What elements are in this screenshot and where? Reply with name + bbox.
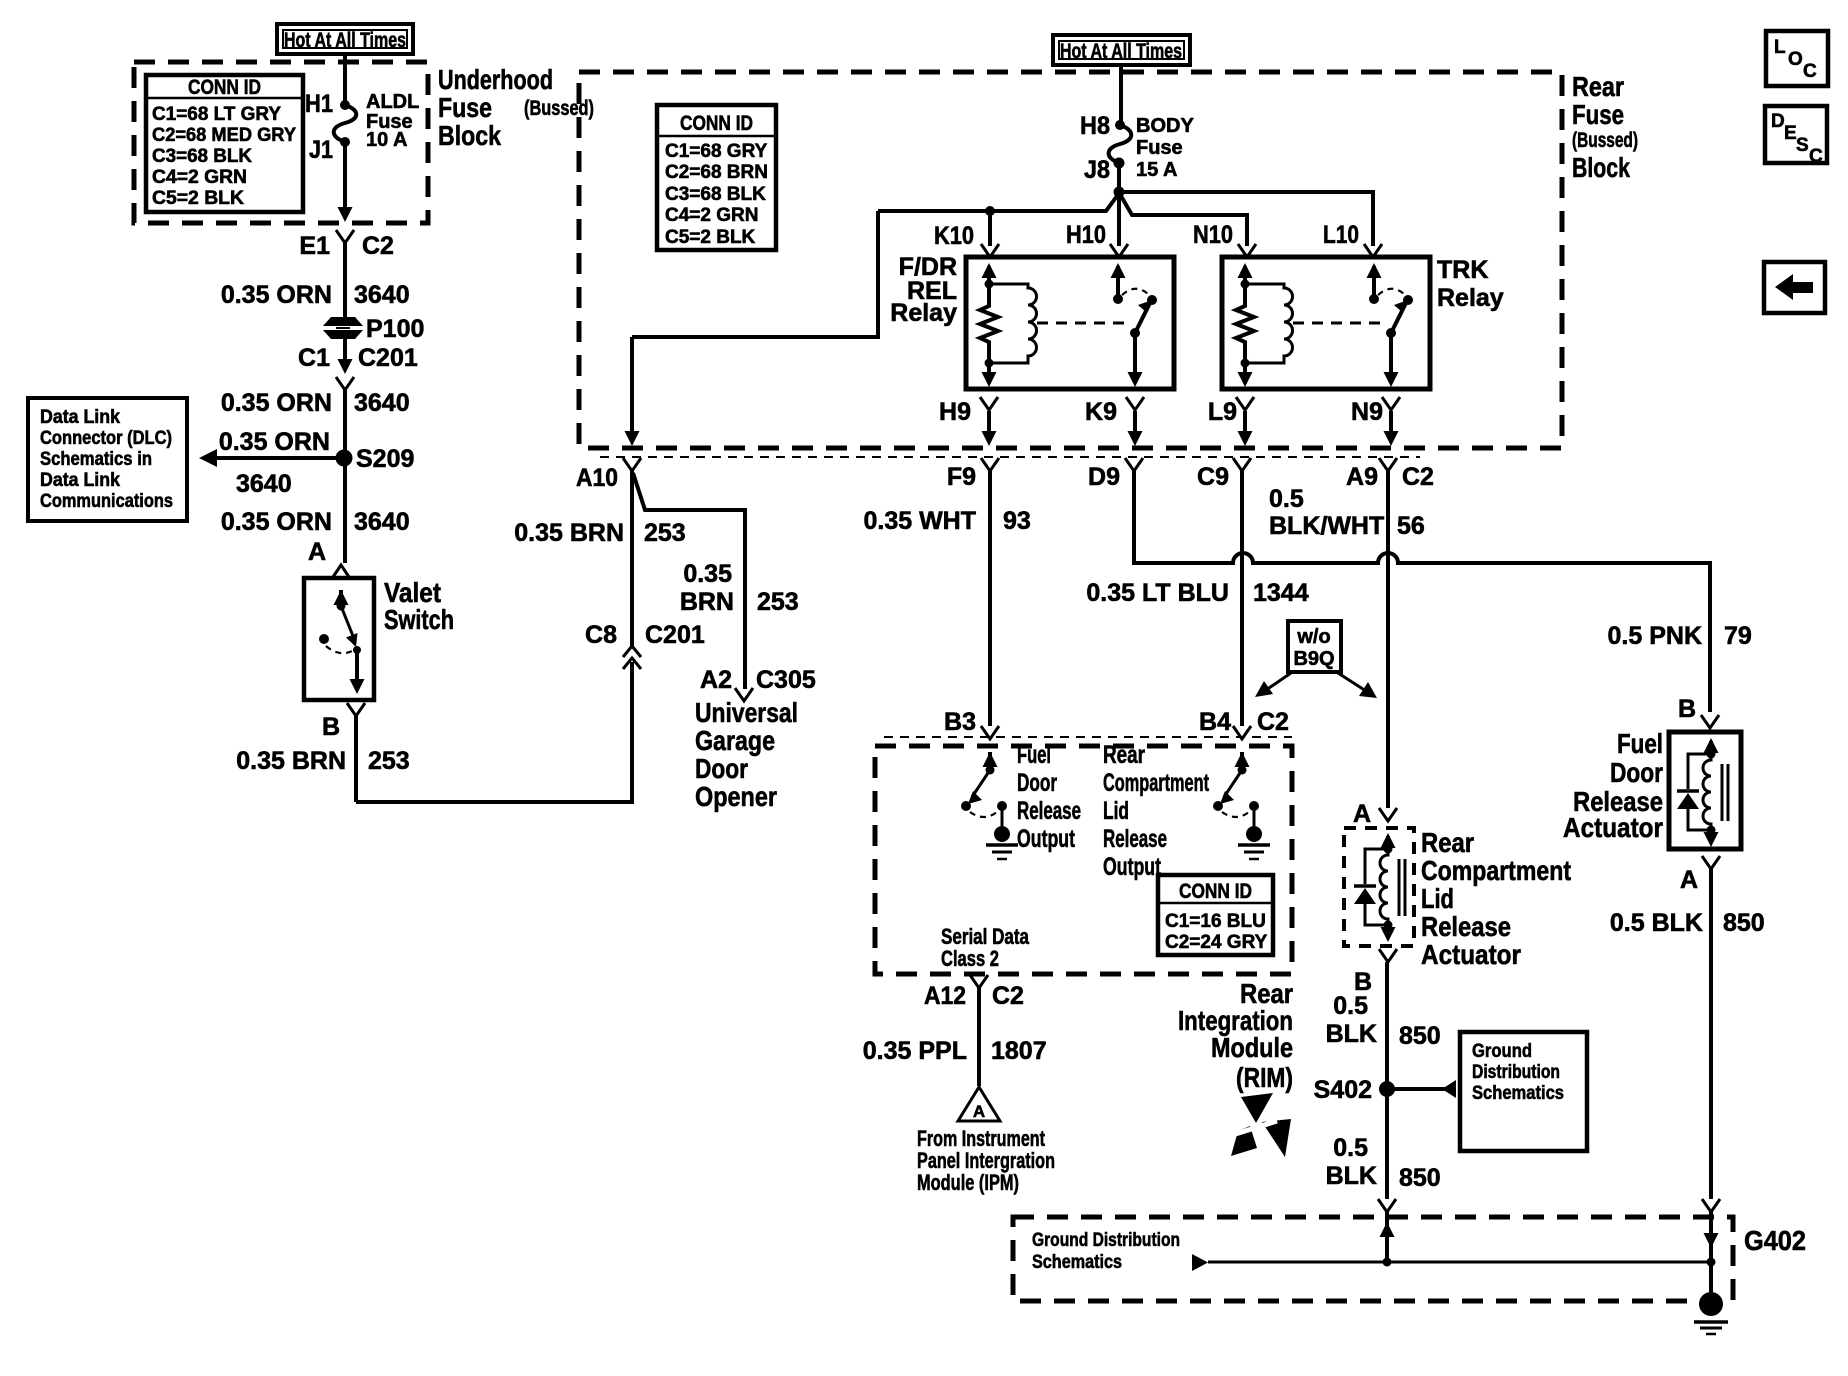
back arrow box bbox=[1764, 262, 1825, 313]
svg-text:Underhood: Underhood bbox=[438, 64, 553, 95]
connector A (rear lid actuator) bbox=[1353, 800, 1397, 828]
svg-text:253: 253 bbox=[757, 588, 799, 616]
svg-text:0.35 WHT: 0.35 WHT bbox=[863, 507, 976, 535]
svg-text:L9: L9 bbox=[1208, 398, 1237, 426]
ground (fuel door release output) bbox=[986, 826, 1018, 859]
svg-text:A9: A9 bbox=[1346, 463, 1378, 491]
svg-text:Lid: Lid bbox=[1103, 797, 1129, 825]
svg-text:B: B bbox=[1678, 695, 1696, 723]
ground bus reference triangle and wire bbox=[1192, 1254, 1710, 1271]
svg-text:C5=2 BLK: C5=2 BLK bbox=[665, 227, 756, 248]
pin B valet switch bbox=[322, 703, 365, 741]
svg-text:J8: J8 bbox=[1084, 156, 1110, 184]
svg-text:Door: Door bbox=[1610, 757, 1663, 788]
svg-text:D: D bbox=[1771, 111, 1785, 132]
wire junction to L10 bbox=[1119, 192, 1373, 246]
svg-text:Fuel: Fuel bbox=[1017, 741, 1051, 769]
svg-text:C5=2 BLK: C5=2 BLK bbox=[152, 188, 244, 209]
svg-text:C2=68 BRN: C2=68 BRN bbox=[665, 162, 768, 183]
rear fuse block title bbox=[1572, 71, 1638, 183]
svg-text:N9: N9 bbox=[1351, 398, 1383, 426]
data link connector reference box bbox=[28, 398, 187, 521]
ALDL fuse 10A (H1/J1) bbox=[305, 90, 419, 164]
relay terminal Ys bbox=[981, 244, 1382, 257]
svg-text:(Bussed): (Bussed) bbox=[524, 97, 594, 120]
svg-text:253: 253 bbox=[644, 519, 686, 547]
rear compartment lid release output switch bbox=[1213, 752, 1259, 826]
svg-text:B9Q: B9Q bbox=[1293, 648, 1334, 670]
ground distribution schematics label (in box) bbox=[1032, 1230, 1180, 1273]
svg-text:(RIM): (RIM) bbox=[1236, 1062, 1293, 1093]
ground distribution schematics reference box bbox=[1460, 1032, 1587, 1151]
svg-text:Output: Output bbox=[1017, 825, 1075, 853]
underhood fuse block title bbox=[438, 64, 594, 151]
G402 dashed box bbox=[1013, 1217, 1733, 1301]
svg-text:A: A bbox=[308, 538, 326, 566]
svg-text:C2=68 MED GRY: C2=68 MED GRY bbox=[152, 125, 296, 146]
S402 reference arrow to ground distribution bbox=[1387, 1080, 1456, 1098]
valet switch box bbox=[304, 578, 374, 700]
svg-text:Connector (DLC): Connector (DLC) bbox=[40, 428, 172, 449]
connector row thin dashed line bbox=[600, 456, 1420, 458]
wire S402 into ground bus bbox=[1380, 1212, 1395, 1267]
wire valet B to C201, label 0.35 BRN 253 bbox=[236, 662, 632, 802]
svg-text:H9: H9 bbox=[939, 398, 971, 426]
svg-text:CONN ID: CONN ID bbox=[188, 76, 261, 99]
svg-text:Actuator: Actuator bbox=[1421, 939, 1521, 970]
svg-text:Ground Distribution: Ground Distribution bbox=[1032, 1230, 1180, 1251]
svg-text:93: 93 bbox=[1003, 507, 1031, 535]
connector A12/C2 bbox=[924, 975, 1024, 1010]
off-page triangle A (serial data) bbox=[958, 1087, 1000, 1121]
svg-text:TRK: TRK bbox=[1437, 256, 1488, 284]
svg-text:Rear: Rear bbox=[1421, 827, 1474, 858]
svg-text:Switch: Switch bbox=[384, 604, 454, 635]
svg-text:D9: D9 bbox=[1088, 463, 1120, 491]
svg-text:Garage: Garage bbox=[695, 725, 775, 756]
svg-text:A: A bbox=[1353, 800, 1371, 828]
svg-text:0.35 ORN: 0.35 ORN bbox=[221, 389, 332, 417]
svg-text:Rear: Rear bbox=[1572, 71, 1624, 102]
svg-text:Output: Output bbox=[1103, 853, 1161, 881]
w/o B9Q arrows bbox=[1255, 673, 1377, 698]
svg-text:56: 56 bbox=[1397, 512, 1425, 540]
svg-text:0.35 ORN: 0.35 ORN bbox=[221, 508, 332, 536]
svg-text:Relay: Relay bbox=[1437, 284, 1504, 312]
CONN ID table (RIM) bbox=[1158, 875, 1273, 955]
svg-text:B: B bbox=[322, 713, 340, 741]
svg-text:Data Link: Data Link bbox=[40, 470, 120, 491]
TRK relay internals bbox=[1236, 263, 1413, 387]
svg-text:C2=24 GRY: C2=24 GRY bbox=[1165, 932, 1268, 953]
CONN ID table (rear fuse block) bbox=[657, 105, 776, 250]
grommet P100 bbox=[323, 315, 424, 343]
svg-text:E: E bbox=[1784, 123, 1797, 144]
svg-text:850: 850 bbox=[1399, 1164, 1441, 1192]
svg-text:850: 850 bbox=[1399, 1022, 1441, 1050]
BODY fuse 15A (H8/J8) bbox=[1080, 112, 1194, 184]
F/DR REL relay internals bbox=[980, 263, 1157, 387]
svg-text:10 A: 10 A bbox=[366, 129, 408, 151]
fuel door release actuator box bbox=[1669, 732, 1741, 849]
svg-text:253: 253 bbox=[368, 747, 410, 775]
DESC box bbox=[1765, 106, 1827, 167]
wire A12 to IPM, label 0.35 PPL 1807 bbox=[863, 988, 1047, 1086]
svg-text:0.35 BRN: 0.35 BRN bbox=[514, 519, 624, 547]
wire fuel door A to G402, label 0.5 BLK 850 bbox=[1610, 869, 1765, 1199]
svg-text:B4: B4 bbox=[1199, 708, 1231, 736]
svg-text:S402: S402 bbox=[1314, 1076, 1372, 1104]
svg-text:0.35 PPL: 0.35 PPL bbox=[863, 1037, 967, 1065]
connector labels A10 F9 D9 C9 A9 C2 bbox=[576, 463, 1434, 492]
svg-text:Fuel: Fuel bbox=[1617, 728, 1663, 759]
relay output pins H9 K9 L9 N9 bbox=[939, 397, 998, 446]
LOC box bbox=[1766, 31, 1828, 86]
svg-text:3640: 3640 bbox=[354, 281, 410, 309]
svg-text:K9: K9 bbox=[1085, 398, 1117, 426]
svg-text:1807: 1807 bbox=[991, 1037, 1047, 1065]
svg-text:Release: Release bbox=[1103, 825, 1167, 853]
F/DR REL relay label bbox=[890, 253, 957, 327]
connector B4 / C2 bbox=[1199, 708, 1289, 739]
svg-text:0.35 ORN: 0.35 ORN bbox=[221, 281, 332, 309]
from IPM label bbox=[917, 1126, 1055, 1195]
wire split right to N10 bbox=[1121, 196, 1247, 246]
wire B to S402, label 0.5 BLK 850 bbox=[1326, 962, 1441, 1199]
svg-text:S: S bbox=[1796, 135, 1809, 156]
wire C201 to S209, label 0.35 ORN 3640 bbox=[221, 389, 410, 458]
rear compartment lid release output label bbox=[1103, 741, 1209, 881]
svg-text:Release: Release bbox=[1017, 797, 1081, 825]
svg-text:Distribution: Distribution bbox=[1472, 1062, 1560, 1083]
svg-text:Hot At All Times: Hot At All Times bbox=[284, 29, 406, 52]
svg-text:C9: C9 bbox=[1197, 463, 1229, 491]
svg-text:Release: Release bbox=[1421, 911, 1511, 942]
svg-text:C1=16 BLU: C1=16 BLU bbox=[1165, 911, 1266, 932]
svg-text:Opener: Opener bbox=[695, 781, 777, 812]
ground G402 symbol bbox=[1694, 1292, 1728, 1334]
svg-text:ALDL: ALDL bbox=[366, 91, 419, 113]
wire hot to BODY fuse bbox=[1119, 65, 1123, 125]
svg-text:Fuse: Fuse bbox=[1136, 137, 1183, 159]
F/DR REL relay box bbox=[966, 257, 1174, 389]
connector C8/C201 bbox=[585, 621, 705, 669]
svg-text:B3: B3 bbox=[944, 708, 976, 736]
svg-text:0.35 BRN: 0.35 BRN bbox=[236, 747, 346, 775]
svg-text:A2: A2 bbox=[700, 666, 732, 694]
svg-text:0.35 LT BLU: 0.35 LT BLU bbox=[1086, 579, 1229, 607]
RIM module label bbox=[1178, 978, 1293, 1093]
svg-text:Compartment: Compartment bbox=[1103, 769, 1209, 797]
wire E1 to P100, label 0.35 ORN 3640 bbox=[221, 243, 410, 317]
svg-text:0.5: 0.5 bbox=[1333, 1134, 1368, 1162]
svg-text:0.5 PNK: 0.5 PNK bbox=[1608, 622, 1702, 650]
svg-text:Compartment: Compartment bbox=[1421, 855, 1571, 886]
svg-text:H10: H10 bbox=[1066, 221, 1106, 249]
svg-text:Lid: Lid bbox=[1421, 883, 1454, 914]
rear fuse block dashed box bbox=[579, 72, 1562, 448]
svg-text:BLK: BLK bbox=[1326, 1162, 1377, 1190]
CONN ID table (underhood) bbox=[146, 75, 303, 212]
svg-text:C8: C8 bbox=[585, 621, 617, 649]
wire C9 to B4, label 0.35 LT BLU 1344 bbox=[1086, 471, 1308, 726]
svg-text:C1=68 LT GRY: C1=68 LT GRY bbox=[152, 104, 281, 125]
svg-text:C2: C2 bbox=[1257, 708, 1289, 736]
svg-text:Door: Door bbox=[1017, 769, 1057, 797]
RIM connector thin dashed line bbox=[884, 736, 1292, 738]
fuel door release output switch bbox=[961, 752, 1007, 826]
svg-text:Universal: Universal bbox=[695, 697, 798, 728]
svg-text:CONN ID: CONN ID bbox=[1179, 880, 1252, 903]
svg-text:C201: C201 bbox=[358, 344, 418, 372]
svg-text:A10: A10 bbox=[576, 464, 618, 492]
TRK relay box bbox=[1222, 257, 1430, 389]
svg-text:3640: 3640 bbox=[354, 508, 410, 536]
svg-text:P100: P100 bbox=[366, 315, 424, 343]
label 0.5 BLK/WHT 56 bbox=[1269, 485, 1425, 540]
svg-text:C4=2 GRN: C4=2 GRN bbox=[152, 167, 247, 188]
svg-text:Schematics: Schematics bbox=[1472, 1083, 1564, 1104]
svg-text:3640: 3640 bbox=[236, 470, 292, 498]
svg-text:w/o: w/o bbox=[1296, 626, 1330, 648]
svg-text:Communications: Communications bbox=[40, 491, 173, 512]
valet switch contacts bbox=[319, 590, 365, 694]
serial data class 2 label bbox=[941, 924, 1030, 971]
Hot At All Times label box (underhood) bbox=[277, 24, 413, 54]
TRK relay label bbox=[1437, 256, 1504, 312]
fuel door release output label bbox=[1017, 741, 1081, 853]
wire arrow to DLC reference bbox=[199, 428, 344, 498]
svg-text:0.5 BLK: 0.5 BLK bbox=[1610, 909, 1703, 937]
svg-text:G402: G402 bbox=[1744, 1225, 1806, 1256]
svg-text:79: 79 bbox=[1724, 622, 1752, 650]
svg-text:Relay: Relay bbox=[890, 299, 957, 327]
svg-text:Data Link: Data Link bbox=[40, 407, 120, 428]
svg-text:Fuse: Fuse bbox=[1572, 99, 1624, 130]
svg-text:0.5: 0.5 bbox=[1269, 485, 1304, 513]
splice S402 bbox=[1314, 1076, 1395, 1104]
connector C1/C201 bbox=[298, 339, 418, 390]
svg-text:Ground: Ground bbox=[1472, 1041, 1532, 1062]
svg-text:BODY: BODY bbox=[1136, 115, 1194, 137]
wire split left to K10 and A10 corner bbox=[632, 196, 1117, 337]
svg-text:H1: H1 bbox=[305, 90, 333, 118]
svg-text:H8: H8 bbox=[1080, 112, 1110, 140]
svg-text:C201: C201 bbox=[645, 621, 705, 649]
connector E1/C2 bbox=[299, 230, 394, 260]
svg-text:A: A bbox=[973, 1102, 985, 1121]
svg-text:C2: C2 bbox=[1402, 463, 1434, 491]
svg-text:CONN ID: CONN ID bbox=[680, 112, 753, 135]
connector B3 bbox=[944, 708, 999, 739]
wire D9 to fuel door actuator, hops over C9 and A9 wires bbox=[1134, 471, 1710, 712]
svg-text:C: C bbox=[1809, 146, 1823, 167]
svg-text:Schematics: Schematics bbox=[1032, 1252, 1122, 1273]
wire S209 to valet switch, label 0.35 ORN 3640 bbox=[221, 458, 410, 563]
wire hot to fuse bbox=[343, 54, 347, 105]
svg-text:Actuator: Actuator bbox=[1563, 812, 1663, 843]
wire fuse to block edge bbox=[338, 142, 353, 222]
valet switch label bbox=[384, 577, 454, 635]
rear compartment lid release actuator label bbox=[1421, 827, 1571, 970]
svg-text:Block: Block bbox=[1572, 152, 1630, 183]
svg-text:Module: Module bbox=[1211, 1032, 1293, 1063]
svg-text:C4=2 GRN: C4=2 GRN bbox=[665, 205, 758, 226]
svg-text:BRN: BRN bbox=[680, 588, 734, 616]
ESD sensitivity symbol bbox=[1229, 1093, 1291, 1157]
svg-text:BLK: BLK bbox=[1326, 1020, 1377, 1048]
svg-text:J1: J1 bbox=[309, 136, 333, 164]
connector Ys entering G402 bbox=[1378, 1199, 1720, 1212]
svg-text:A12: A12 bbox=[924, 982, 966, 1010]
svg-text:850: 850 bbox=[1723, 909, 1765, 937]
wire fuel door ground into bus and G402 ground bbox=[1704, 1212, 1719, 1292]
svg-text:Hot At All Times: Hot At All Times bbox=[1060, 40, 1182, 63]
connector A (fuel door actuator) bbox=[1680, 856, 1720, 894]
svg-text:F9: F9 bbox=[947, 463, 976, 491]
svg-text:C2: C2 bbox=[992, 982, 1024, 1010]
svg-text:Module (IPM): Module (IPM) bbox=[917, 1170, 1019, 1195]
svg-text:Fuse: Fuse bbox=[438, 92, 492, 123]
underhood fuse block dashed box bbox=[134, 62, 428, 223]
rear compartment lid release actuator dashed box bbox=[1344, 828, 1414, 946]
label 0.5 PNK 79 bbox=[1608, 622, 1752, 650]
wire into A10 connector bbox=[625, 337, 640, 446]
svg-text:L10: L10 bbox=[1323, 221, 1359, 249]
svg-text:3640: 3640 bbox=[354, 389, 410, 417]
wire A9 to rear lid actuator bbox=[1386, 471, 1390, 808]
svg-text:0.35 ORN: 0.35 ORN bbox=[219, 428, 330, 456]
wire F9 to B3, label 0.35 WHT 93 bbox=[863, 471, 1030, 726]
svg-text:Door: Door bbox=[695, 753, 748, 784]
RIM dashed box bbox=[875, 746, 1292, 974]
svg-text:0.35: 0.35 bbox=[683, 560, 732, 588]
pin A valet switch bbox=[308, 538, 349, 577]
svg-text:Class 2: Class 2 bbox=[941, 946, 999, 971]
svg-text:Rear: Rear bbox=[1103, 741, 1145, 769]
svg-text:N10: N10 bbox=[1193, 221, 1233, 249]
svg-text:A: A bbox=[1680, 866, 1698, 894]
fuel door release actuator label bbox=[1563, 728, 1663, 843]
svg-text:C1: C1 bbox=[298, 344, 330, 372]
fuel door actuator internals (coil+diode) bbox=[1677, 738, 1728, 847]
wire J8 to junction bbox=[1114, 163, 1125, 198]
universal garage door opener label bbox=[695, 697, 798, 812]
branch wire to garage door opener bbox=[633, 473, 799, 689]
ground (rear compartment lid release output) bbox=[1238, 826, 1270, 859]
Hot At All Times label box (rear) bbox=[1053, 35, 1190, 65]
svg-text:0.5: 0.5 bbox=[1333, 992, 1368, 1020]
svg-text:K10: K10 bbox=[934, 222, 974, 250]
svg-text:Block: Block bbox=[438, 120, 501, 151]
svg-text:C: C bbox=[1803, 61, 1817, 82]
wire split to H10 bbox=[1117, 192, 1121, 246]
connector B (fuel door actuator) bbox=[1678, 695, 1719, 728]
connector A2/C305 bbox=[700, 666, 816, 701]
svg-text:C1=68 GRY: C1=68 GRY bbox=[665, 141, 768, 162]
svg-text:15 A: 15 A bbox=[1136, 159, 1178, 181]
w/o B9Q callout box bbox=[1288, 621, 1341, 672]
wire C201 to A10, label 0.35 BRN 253 bbox=[514, 470, 685, 646]
svg-text:L: L bbox=[1774, 37, 1786, 58]
svg-text:(Bussed): (Bussed) bbox=[1572, 129, 1638, 152]
connector row Ys bbox=[623, 458, 1397, 471]
svg-text:S209: S209 bbox=[356, 445, 414, 473]
svg-text:BLK/WHT: BLK/WHT bbox=[1269, 512, 1384, 540]
label 0.5 BLK 850 (below S402) bbox=[1326, 1134, 1441, 1192]
relay pin labels K10 H10 N10 L10 bbox=[934, 221, 1359, 250]
svg-text:1344: 1344 bbox=[1253, 579, 1309, 607]
svg-text:Schematics in: Schematics in bbox=[40, 449, 152, 470]
splice S209 bbox=[336, 445, 415, 473]
svg-text:C2: C2 bbox=[362, 232, 394, 260]
svg-text:C3=68 BLK: C3=68 BLK bbox=[152, 146, 252, 167]
svg-text:C3=68 BLK: C3=68 BLK bbox=[665, 184, 766, 205]
svg-text:C305: C305 bbox=[756, 666, 816, 694]
rear lid actuator internals (coil+diode) bbox=[1354, 833, 1405, 942]
svg-text:E1: E1 bbox=[299, 232, 330, 260]
connector B (rear lid actuator) bbox=[1354, 949, 1397, 996]
svg-text:O: O bbox=[1788, 49, 1803, 70]
